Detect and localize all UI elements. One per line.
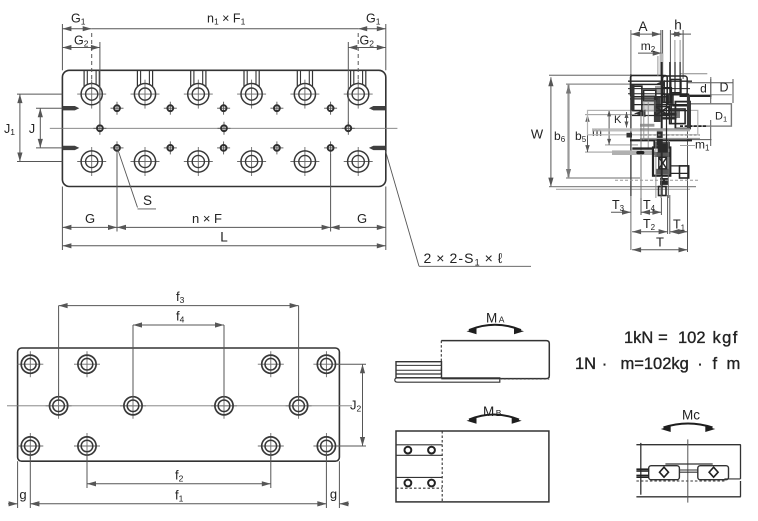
extension lines top [61,24,63,70]
dimension g left [8,503,18,505]
svg-text:D1: D1 [715,111,727,124]
svg-text:m=102kg: m=102kg [621,355,689,373]
section dim b6 [566,83,662,85]
moment arc MA [469,325,521,330]
dimension J [36,107,62,109]
svg-text:J: J [29,122,35,136]
MA rail stack [396,362,442,378]
dimension L [62,245,385,247]
section D1 box [689,104,731,126]
svg-text:T4: T4 [643,198,656,213]
svg-text:d: d [700,82,707,96]
svg-text:J1: J1 [4,122,15,137]
MB roller band upper [396,444,442,446]
Mc center rail [679,469,697,471]
dimension G1 left [62,28,91,30]
svg-text:n × F: n × F [192,211,222,226]
side pin left upper [63,106,79,110]
section dim A [631,33,661,35]
section dim T1 [670,231,688,233]
svg-text:G: G [85,211,95,226]
dimension f2 [86,453,88,488]
section dim m2 [638,52,662,54]
svg-text:T2: T2 [643,217,656,232]
svg-text:f: f [713,355,718,373]
svg-text:D: D [719,81,728,95]
svg-text:n1 × F1: n1 × F1 [207,12,246,27]
svg-text:m: m [727,355,741,373]
counterbore holes top row [77,70,373,108]
svg-text:kgf: kgf [713,329,739,347]
svg-text:T1: T1 [673,218,686,233]
svg-text:f4: f4 [176,309,185,325]
section dim T2 [632,231,668,233]
svg-text:T3: T3 [612,198,625,213]
Mc rail end lines left [636,468,648,470]
svg-text:K: K [614,114,622,126]
section dim T3 [611,211,631,213]
svg-text:=: = [658,329,668,347]
svg-text:W: W [531,127,544,142]
MB roller band lower [396,476,442,478]
moment arc Mc [664,424,713,428]
svg-text:g: g [19,487,26,502]
section body cluster [588,40,732,198]
side pin right upper [369,106,385,110]
svg-text:·: · [602,355,608,373]
dimension G bottom-right [331,226,386,228]
section dim b5 [585,114,636,116]
section dim m1 [687,139,712,141]
dimension f1 and g [29,453,31,508]
side pin right lower [369,146,385,150]
top view plate outline [62,70,385,186]
svg-text:f3: f3 [176,289,185,305]
svg-text:h: h [674,18,682,33]
dimension J1 [17,93,62,95]
Mc roller diamonds [660,467,669,477]
Mc right carriage block [698,466,729,480]
svg-text:G1: G1 [366,12,381,27]
dimension J2 [336,363,366,365]
svg-text:b5: b5 [575,129,587,144]
dimension n1 x F1 [92,28,359,30]
oil holes on centerline [93,122,354,135]
dimension f4 [132,325,134,399]
section extension verticals top [630,30,632,250]
dimension f3 [58,306,60,399]
Mc outer section [636,444,740,446]
svg-text:Mc: Mc [682,408,700,423]
Mc left carriage block [649,466,680,480]
Mc hidden line [636,480,724,482]
section dim h [670,33,683,35]
MA bottom rail plate [395,378,500,382]
side pin left lower [63,146,79,150]
oil holes S row lower [111,141,338,154]
holes top row [17,351,339,377]
svg-text:G: G [357,211,367,226]
T extension verticals [640,198,642,215]
Mc vertical centerline [687,439,689,502]
MB outer block [396,431,549,502]
svg-text:MB: MB [483,404,502,419]
svg-text:J2: J2 [350,398,362,414]
bottom view plate outline [18,348,340,461]
svg-text:b6: b6 [554,129,566,144]
moment arc MB [469,415,519,420]
MB rollers [405,447,412,454]
section dim W [549,74,660,76]
svg-text:1N: 1N [575,355,596,373]
svg-text:2 × 2-S1 × ℓ: 2 × 2-S1 × ℓ [424,250,504,268]
svg-text:S: S [143,193,152,208]
svg-text:L: L [220,230,228,245]
dimension n x F [117,226,331,228]
svg-text:102: 102 [678,329,706,347]
svg-text:MA: MA [486,311,505,326]
svg-text:g: g [330,487,337,502]
extension lines bottom [61,187,63,251]
MA table block [441,341,549,379]
bottom view centerline [7,405,352,407]
svg-text:G2: G2 [74,34,89,49]
leader 2x2-S1xl [386,151,420,266]
dimension G1 right [358,28,386,30]
svg-text:·: · [697,355,703,373]
dimension G2 right [348,47,386,49]
svg-text:m: m [592,125,602,139]
section dim d D [688,82,733,84]
svg-text:T: T [656,235,664,250]
svg-text:A: A [638,19,647,34]
holes middle row [46,393,312,419]
holes bottom row [17,433,339,459]
svg-text:m2: m2 [641,39,656,54]
counterbore holes bottom row [77,147,373,176]
horizontal centerline [50,127,398,129]
svg-text:G2: G2 [360,34,375,49]
MB block boundary [441,431,443,502]
section dim K [626,112,628,128]
svg-text:f1: f1 [175,488,184,504]
dimension G2 left [62,47,100,49]
section dim m [605,109,632,111]
svg-text:1kN: 1kN [624,329,653,347]
section dim T4 [641,211,661,213]
oil holes S row upper [111,102,338,115]
Mc rail top [665,463,712,465]
svg-text:G1: G1 [71,12,86,27]
dimension G bottom-left [62,226,117,228]
dimension g right [339,503,349,505]
svg-text:f2: f2 [175,468,184,484]
section dim T [632,249,687,251]
leader S [118,150,138,208]
